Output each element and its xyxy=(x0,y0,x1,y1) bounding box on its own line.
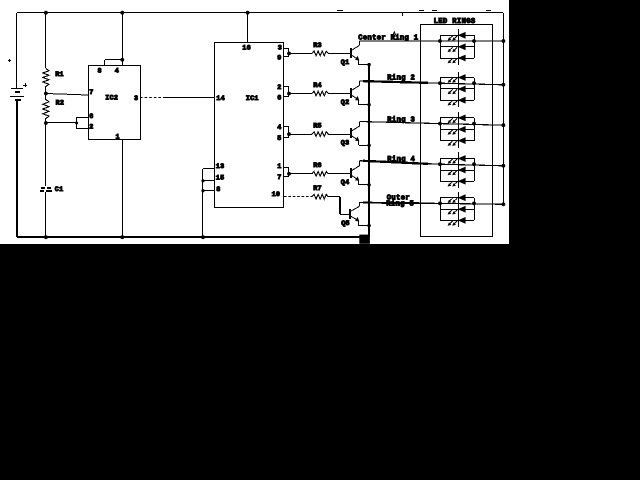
svg-text:14: 14 xyxy=(216,95,225,103)
svg-text:R4: R4 xyxy=(313,82,322,90)
svg-text:15: 15 xyxy=(216,175,225,183)
svg-text:8: 8 xyxy=(98,68,102,76)
svg-text:16: 16 xyxy=(242,44,251,52)
svg-text:2: 2 xyxy=(89,123,93,131)
svg-text:6: 6 xyxy=(89,113,93,121)
svg-text:1: 1 xyxy=(277,163,281,171)
svg-text:3: 3 xyxy=(278,44,282,52)
svg-text:7: 7 xyxy=(89,89,93,97)
svg-text:4: 4 xyxy=(115,68,119,76)
svg-text:2: 2 xyxy=(277,84,281,92)
svg-text:Q2: Q2 xyxy=(341,99,350,107)
svg-text:Ring 5: Ring 5 xyxy=(386,201,414,209)
svg-text:R3: R3 xyxy=(313,42,322,50)
svg-text:IC2: IC2 xyxy=(105,95,118,103)
svg-text:5: 5 xyxy=(277,135,281,143)
svg-text:8: 8 xyxy=(216,186,220,194)
svg-text:4: 4 xyxy=(277,124,281,132)
svg-text:10: 10 xyxy=(272,191,281,199)
svg-text:R6: R6 xyxy=(313,162,322,170)
svg-text:IC1: IC1 xyxy=(246,95,259,103)
svg-text:13: 13 xyxy=(216,163,225,171)
svg-text:R7: R7 xyxy=(313,185,322,193)
svg-text:R2: R2 xyxy=(56,100,65,108)
svg-text:Q3: Q3 xyxy=(341,140,350,148)
svg-text:3: 3 xyxy=(134,95,138,103)
svg-text:Center Ring 1: Center Ring 1 xyxy=(358,35,419,43)
svg-text:Q1: Q1 xyxy=(341,59,350,67)
svg-text:LED RINGS: LED RINGS xyxy=(434,18,476,26)
svg-text:C1: C1 xyxy=(55,186,64,194)
svg-text:Ring 4: Ring 4 xyxy=(387,156,415,164)
svg-text:Q5: Q5 xyxy=(341,220,350,228)
svg-text:R1: R1 xyxy=(55,71,64,79)
svg-text:Q4: Q4 xyxy=(341,179,350,187)
svg-text:1: 1 xyxy=(116,134,120,142)
svg-text:Ring 2: Ring 2 xyxy=(387,74,415,82)
svg-text:9: 9 xyxy=(277,54,281,62)
svg-text:R5: R5 xyxy=(313,123,322,131)
svg-text:6: 6 xyxy=(277,94,281,102)
svg-text:Ring 3: Ring 3 xyxy=(387,117,415,125)
svg-text:7: 7 xyxy=(277,174,281,182)
